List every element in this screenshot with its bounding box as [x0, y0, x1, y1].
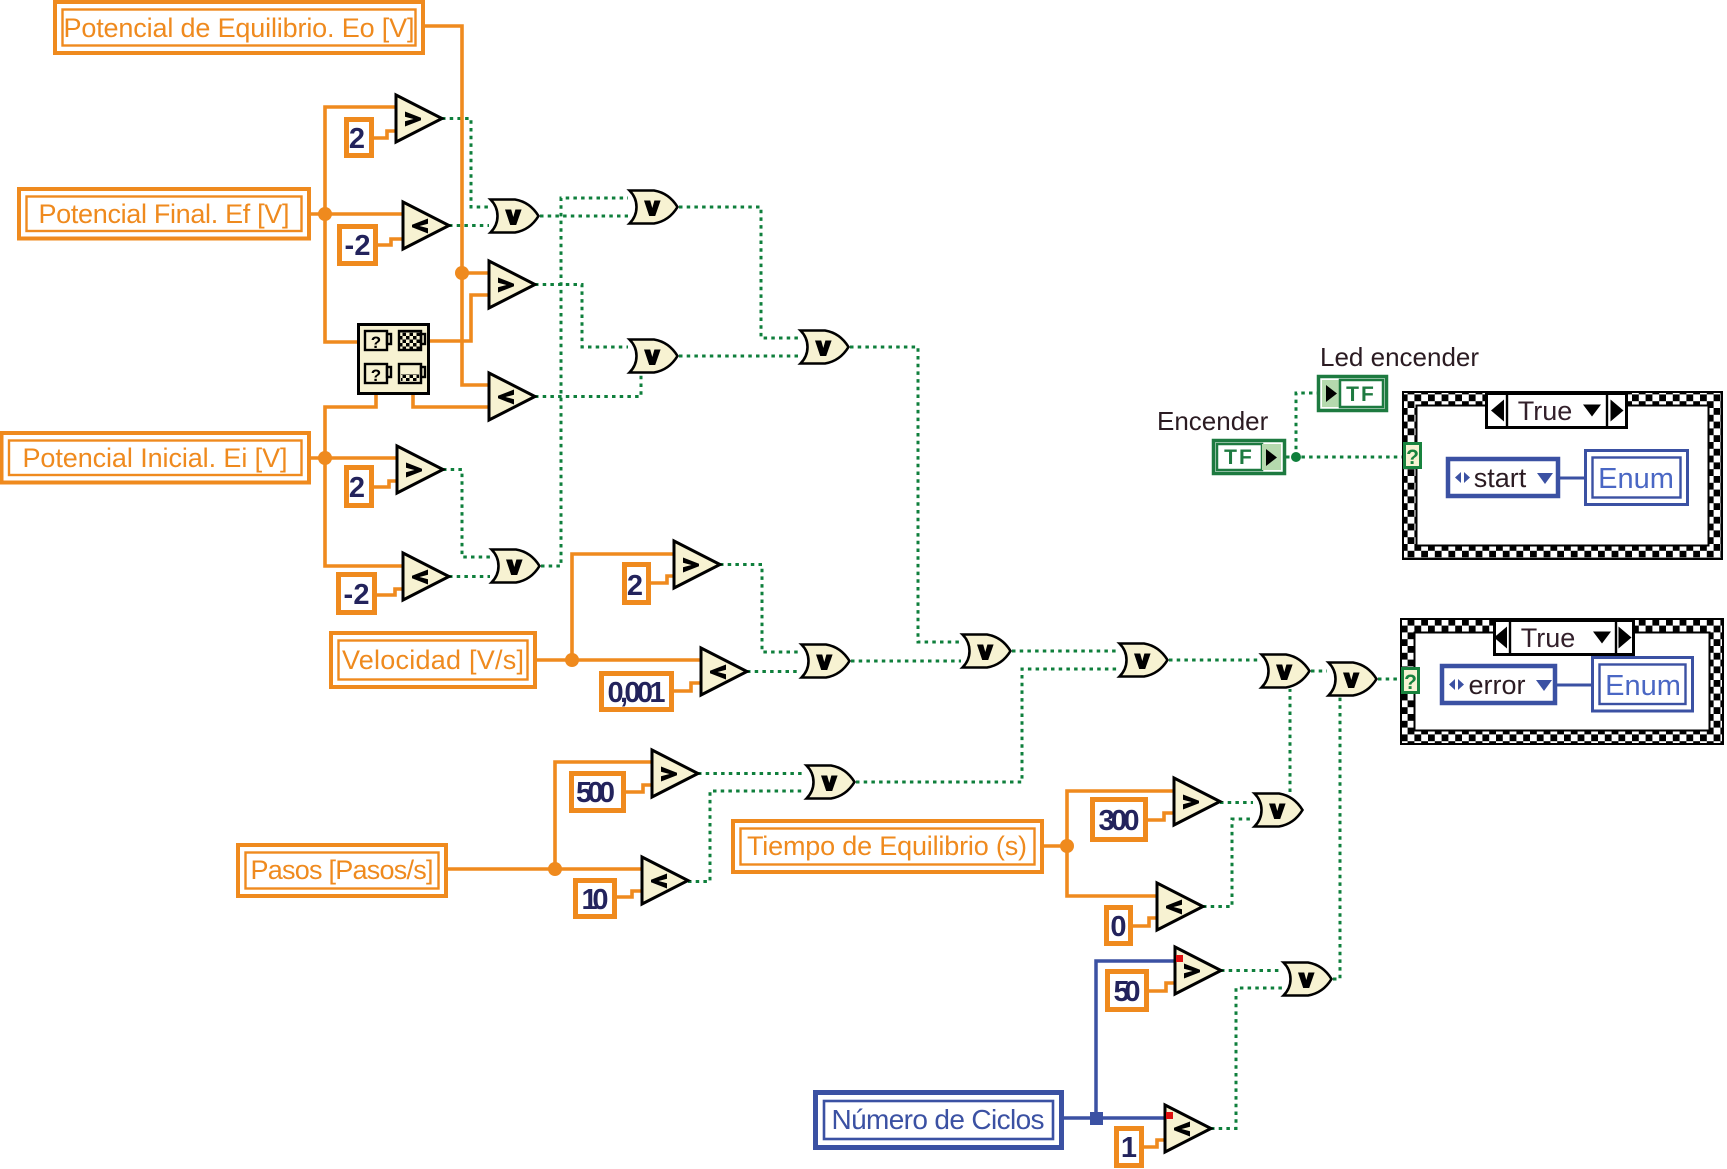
svg-text:0,001: 0,001 — [608, 677, 666, 709]
svg-text:1: 1 — [1121, 1132, 1137, 1164]
svg-text:2: 2 — [627, 570, 643, 602]
svg-text:Pasos [Pasos/s]: Pasos [Pasos/s] — [251, 855, 434, 885]
svg-text:10: 10 — [582, 884, 609, 916]
svg-text:?: ? — [371, 333, 381, 352]
svg-text:Potencial Final. Ef [V]: Potencial Final. Ef [V] — [39, 199, 290, 229]
svg-text:?: ? — [1404, 671, 1417, 694]
svg-text:2: 2 — [349, 123, 365, 155]
svg-text:-2: -2 — [344, 579, 370, 611]
svg-text:-2: -2 — [345, 230, 371, 262]
svg-text:Led encender: Led encender — [1320, 342, 1479, 372]
svg-text:TF: TF — [1346, 383, 1376, 406]
svg-text:True: True — [1521, 623, 1576, 653]
svg-text:Número de Ciclos: Número de Ciclos — [832, 1104, 1045, 1135]
svg-text:?: ? — [371, 366, 381, 385]
svg-text:500: 500 — [576, 777, 615, 809]
svg-text:error: error — [1468, 670, 1525, 700]
svg-text:Enum: Enum — [1598, 463, 1674, 495]
svg-text:True: True — [1518, 396, 1573, 426]
svg-text:2: 2 — [349, 472, 365, 504]
svg-text:start: start — [1474, 463, 1527, 493]
svg-text:Velocidad [V/s]: Velocidad [V/s] — [342, 645, 524, 675]
svg-text:TF: TF — [1224, 446, 1254, 469]
svg-text:300: 300 — [1099, 805, 1140, 837]
svg-text:?: ? — [1406, 446, 1419, 469]
svg-text:Tiempo de Equilibrio (s): Tiempo de Equilibrio (s) — [747, 831, 1027, 861]
svg-text:Potencial de Equilibrio. Eo [V: Potencial de Equilibrio. Eo [V] — [64, 13, 415, 43]
svg-text:0: 0 — [1110, 911, 1126, 943]
svg-text:Potencial Inicial. Ei [V]: Potencial Inicial. Ei [V] — [23, 443, 288, 473]
svg-text:Encender: Encender — [1157, 406, 1269, 436]
svg-text:Enum: Enum — [1605, 670, 1681, 702]
svg-text:50: 50 — [1114, 976, 1141, 1008]
